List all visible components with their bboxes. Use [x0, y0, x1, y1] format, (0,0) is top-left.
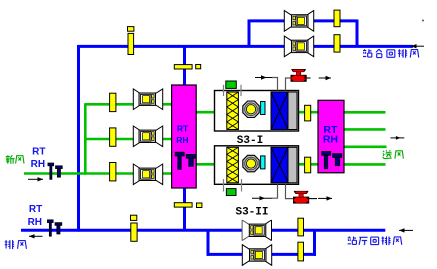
valve V2 below S3-II	[293, 197, 308, 203]
chilled water return arrow S3-I	[319, 77, 331, 79]
damper D12 hall branch upper	[298, 218, 304, 236]
wire: bottom bypass left riser	[207, 229, 210, 256]
fan: platform exhaust fan lower	[284, 36, 313, 57]
fan: hall exhaust fan upper	[242, 220, 271, 241]
wire: riser from mixing box (bottom)	[183, 188, 186, 232]
wire: left vertical duct	[77, 45, 80, 232]
wire: top main duct horizontal	[79, 45, 414, 48]
wire: top bypass left riser	[248, 20, 251, 48]
wire: riser into mixing box (top)	[183, 46, 186, 86]
arrow: hall return air	[399, 229, 413, 231]
damper D5 fresh branch 1	[110, 93, 116, 111]
damper D10 on riser below mixing box	[174, 203, 192, 207]
chilled water pipe down 1 S3-I	[272, 78, 278, 91]
svg-text:RT: RT	[32, 146, 45, 157]
wire: S3-II outlet	[298, 163, 319, 166]
wire: supply line 1	[344, 111, 386, 114]
mixing box RT/RH unit 2	[318, 100, 344, 173]
chilled water return arrow S3-II	[318, 197, 332, 199]
valve V1 above S3-I	[291, 75, 306, 81]
wire: bottom bypass right riser	[313, 229, 316, 256]
svg-text:RH: RH	[323, 133, 338, 145]
chilled water pipe down 1 S3-II	[272, 184, 278, 198]
speck	[422, 20, 424, 22]
sensors RT/RH inside box 2	[322, 152, 331, 156]
bracket wires at green box S3-II	[224, 179, 242, 192]
svg-text:S3-II: S3-II	[235, 207, 268, 219]
wire: fresh air branch 2	[85, 138, 172, 141]
wire: supply line 4	[344, 163, 386, 166]
fan: fresh air fan 3	[133, 164, 162, 185]
svg-text:S3-I: S3-I	[237, 135, 263, 147]
chilled water pipe down 2 S3-I	[286, 78, 292, 91]
mixing box RT/RH unit 1	[172, 85, 197, 188]
sensors RT/RH on exhaust duct	[48, 220, 54, 223]
fan: platform exhaust fan upper	[284, 11, 313, 32]
wire: top bypass upper branch	[249, 19, 357, 22]
damper D3 lower bypass	[334, 35, 340, 52]
actuator square of D10	[197, 203, 202, 208]
wire: supply line 2	[344, 128, 386, 131]
damper D2 upper bypass	[334, 10, 340, 27]
arrow: exhaust air out	[29, 235, 43, 237]
actuator square of D11	[131, 215, 137, 220]
fan: hall exhaust fan lower	[242, 245, 271, 266]
wire: S3-I outlet	[298, 111, 319, 114]
actuator square of D1	[128, 27, 134, 32]
label 站厅回排风 (hall return air)	[348, 236, 357, 244]
wire: mixing box to S3-II	[196, 163, 216, 166]
svg-text:RH: RH	[28, 217, 42, 228]
AHU S3-II box with filter, fan, coil	[215, 146, 299, 185]
actuator square of D4	[196, 65, 201, 69]
wire: fresh air manifold vertical	[84, 103, 87, 174]
wire: supply line 3	[344, 146, 387, 149]
wire: mixing box to S3-I	[196, 111, 216, 114]
damper D1 on top duct	[128, 33, 134, 54]
fan: fresh air fan 1	[133, 89, 162, 110]
label 送风 (supply air)	[383, 150, 392, 158]
damper D8 S3-I outlet	[305, 105, 311, 121]
wire: fresh air branch 1	[85, 103, 172, 106]
pipe from valve S3-I	[304, 77, 310, 79]
damper D6 fresh branch 2	[110, 128, 116, 146]
damper D9 S3-II outlet	[305, 157, 311, 173]
actuator green box above S3-I	[226, 81, 237, 88]
wire: bottom bypass lower branch	[207, 253, 316, 256]
label 新风 (fresh air)	[6, 155, 15, 164]
arrow: platform return air	[411, 45, 424, 47]
fan: fresh air fan 2	[133, 126, 162, 147]
chilled water pipe down 2 S3-II	[286, 184, 295, 198]
wire: fresh air inlet horizontal	[24, 172, 172, 175]
damper D7 fresh branch 3	[110, 163, 116, 181]
svg-text:RT: RT	[29, 204, 42, 215]
damper D13 hall branch lower	[298, 242, 304, 261]
wire: bottom main duct horizontal	[21, 229, 385, 232]
sensors RT/RH on fresh air inlet	[48, 163, 54, 166]
svg-text:RH: RH	[31, 159, 45, 170]
svg-text:RT: RT	[177, 123, 189, 133]
sensors RT/RH inside box 1	[175, 152, 184, 156]
svg-text:RH: RH	[176, 135, 188, 145]
arrow: fresh air in	[28, 178, 43, 180]
pipe from valve S3-II	[308, 198, 317, 200]
damper D11 on bottom duct	[131, 223, 137, 241]
AHU S3-I box with filter, fan, coil	[215, 91, 299, 132]
bracket wires at green box S3-I	[224, 85, 242, 96]
chilled water supply arrow S3-I	[255, 77, 272, 79]
label 站台回排风 (platform return air)	[363, 49, 372, 57]
chilled water supply arrow S3-II	[252, 197, 272, 199]
wire: top bypass right riser	[356, 20, 359, 48]
label 排风 (exhaust air)	[5, 240, 14, 249]
damper D4 on riser to mixing box	[174, 65, 192, 69]
actuator green box below S3-II	[226, 189, 236, 196]
arrow: supply air out	[391, 137, 405, 139]
